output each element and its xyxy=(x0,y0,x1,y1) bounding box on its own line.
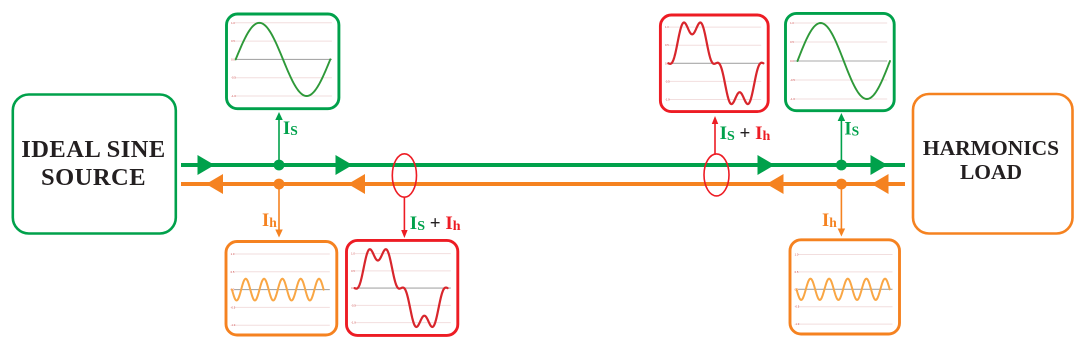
svg-text:IS: IS xyxy=(283,119,298,139)
scope A (source Is sine) axis tick labels xyxy=(231,21,236,98)
arrowhead Ih direction 2 xyxy=(348,174,365,194)
scope A (source Is sine) waveform trace xyxy=(236,23,331,96)
scope D (left Ih ripple) frame xyxy=(226,242,337,336)
svg-text:1.0: 1.0 xyxy=(351,252,355,256)
svg-text:-0.5: -0.5 xyxy=(231,305,236,309)
wire: left Is probe to scope xyxy=(278,118,280,165)
scope C (top Is+Ih distorted) waveform trace xyxy=(668,23,763,105)
arrowhead Ih direction 1 xyxy=(206,174,223,194)
scope D (left Ih ripple) gridlines xyxy=(235,254,330,325)
svg-text:1.0: 1.0 xyxy=(231,252,235,256)
arrowhead Is direction 3 xyxy=(758,155,775,175)
svg-text:0.5: 0.5 xyxy=(351,269,355,273)
svg-text:IS: IS xyxy=(844,120,859,140)
svg-text:Ih: Ih xyxy=(822,211,837,231)
svg-text:0.5: 0.5 xyxy=(231,270,235,274)
svg-text:IDEAL SINE: IDEAL SINE xyxy=(21,136,166,163)
wire: right Ih probe to scope xyxy=(840,184,842,230)
svg-text:-1.0: -1.0 xyxy=(790,97,795,101)
svg-text:1.0: 1.0 xyxy=(795,253,799,257)
arrowhead Ih direction 3 xyxy=(767,174,784,194)
load box: HARMONICS LOAD xyxy=(913,94,1073,234)
wire: left Is+Ih probe to scope xyxy=(403,198,405,233)
svg-text:0.5: 0.5 xyxy=(231,39,235,43)
wire: harmonic current Ih bus (orange, right to left) xyxy=(181,182,905,186)
scope A (source Is sine) frame xyxy=(227,14,339,109)
scope D (left Ih ripple) axis tick labels xyxy=(231,252,236,327)
svg-text:0.0: 0.0 xyxy=(231,57,235,61)
arrowhead Is direction 4 xyxy=(871,155,888,175)
wire: right Is probe to scope xyxy=(840,119,842,165)
scope E (bottom Is+Ih distorted) axis tick labels xyxy=(351,252,356,325)
svg-text:-1.0: -1.0 xyxy=(231,323,236,327)
wire: source current Is bus (green, left to right) xyxy=(181,163,905,167)
svg-text:1.0: 1.0 xyxy=(231,21,235,25)
arrowhead Is direction 2 xyxy=(336,155,353,175)
svg-text:-0.5: -0.5 xyxy=(665,79,670,83)
svg-text:0.5: 0.5 xyxy=(795,270,799,274)
scope C (top Is+Ih distorted) axis tick labels xyxy=(665,25,670,101)
svg-text:-1.0: -1.0 xyxy=(795,322,800,326)
node: left Ih tap xyxy=(274,179,285,190)
scope B (load-side Is sine) frame xyxy=(786,13,895,110)
scope B (load-side Is sine) gridlines xyxy=(794,23,887,99)
svg-text:-0.5: -0.5 xyxy=(790,78,795,82)
svg-text:-0.5: -0.5 xyxy=(795,305,800,309)
svg-text:HARMONICS: HARMONICS xyxy=(923,136,1059,160)
svg-text:-0.5: -0.5 xyxy=(231,76,236,80)
scope B (load-side Is sine) axis tick labels xyxy=(790,21,795,101)
scope E (bottom Is+Ih distorted) waveform trace xyxy=(355,249,448,327)
node: right Ih tap xyxy=(836,179,847,190)
svg-text:-1.0: -1.0 xyxy=(231,94,236,98)
node: left Is tap xyxy=(274,160,285,171)
scope C (top Is+Ih distorted) frame xyxy=(660,15,768,112)
svg-text:LOAD: LOAD xyxy=(960,160,1022,184)
source box: IDEAL SINE SOURCE xyxy=(13,95,176,234)
scope F (right Ih ripple) frame xyxy=(790,240,900,334)
scope C (top Is+Ih distorted) gridlines xyxy=(669,27,761,99)
scope F (right Ih ripple) gridlines xyxy=(799,255,893,325)
scope E (bottom Is+Ih distorted) frame xyxy=(347,240,458,335)
measurement ellipse (left, Is+Ih) xyxy=(392,154,416,197)
svg-text:Ih: Ih xyxy=(262,211,277,231)
scope D (left Ih ripple) waveform trace xyxy=(232,279,324,301)
wire: left Ih probe to scope xyxy=(278,184,280,231)
svg-text:1.0: 1.0 xyxy=(790,21,794,25)
node: right Is tap xyxy=(836,160,847,171)
measurement ellipse (right, Is+Ih) xyxy=(704,154,729,196)
svg-text:1.0: 1.0 xyxy=(665,25,669,29)
svg-text:SOURCE: SOURCE xyxy=(41,164,146,191)
scope F (right Ih ripple) axis tick labels xyxy=(795,253,800,327)
svg-text:0.5: 0.5 xyxy=(790,40,794,44)
svg-text:-1.0: -1.0 xyxy=(351,321,356,325)
svg-text:0.0: 0.0 xyxy=(790,59,794,63)
arrowhead Is direction 1 xyxy=(198,155,215,175)
scope F (right Ih ripple) waveform trace xyxy=(797,279,890,300)
svg-text:-1.0: -1.0 xyxy=(665,98,670,102)
scope A (source Is sine) gridlines xyxy=(235,23,332,96)
scope E (bottom Is+Ih distorted) gridlines xyxy=(355,254,451,323)
svg-text:0.5: 0.5 xyxy=(665,43,669,47)
svg-text:-0.5: -0.5 xyxy=(351,303,356,307)
arrowhead Ih direction 4 xyxy=(872,174,889,194)
scope B (load-side Is sine) waveform trace xyxy=(798,23,891,99)
wire: right Is+Ih probe to scope xyxy=(714,121,716,154)
